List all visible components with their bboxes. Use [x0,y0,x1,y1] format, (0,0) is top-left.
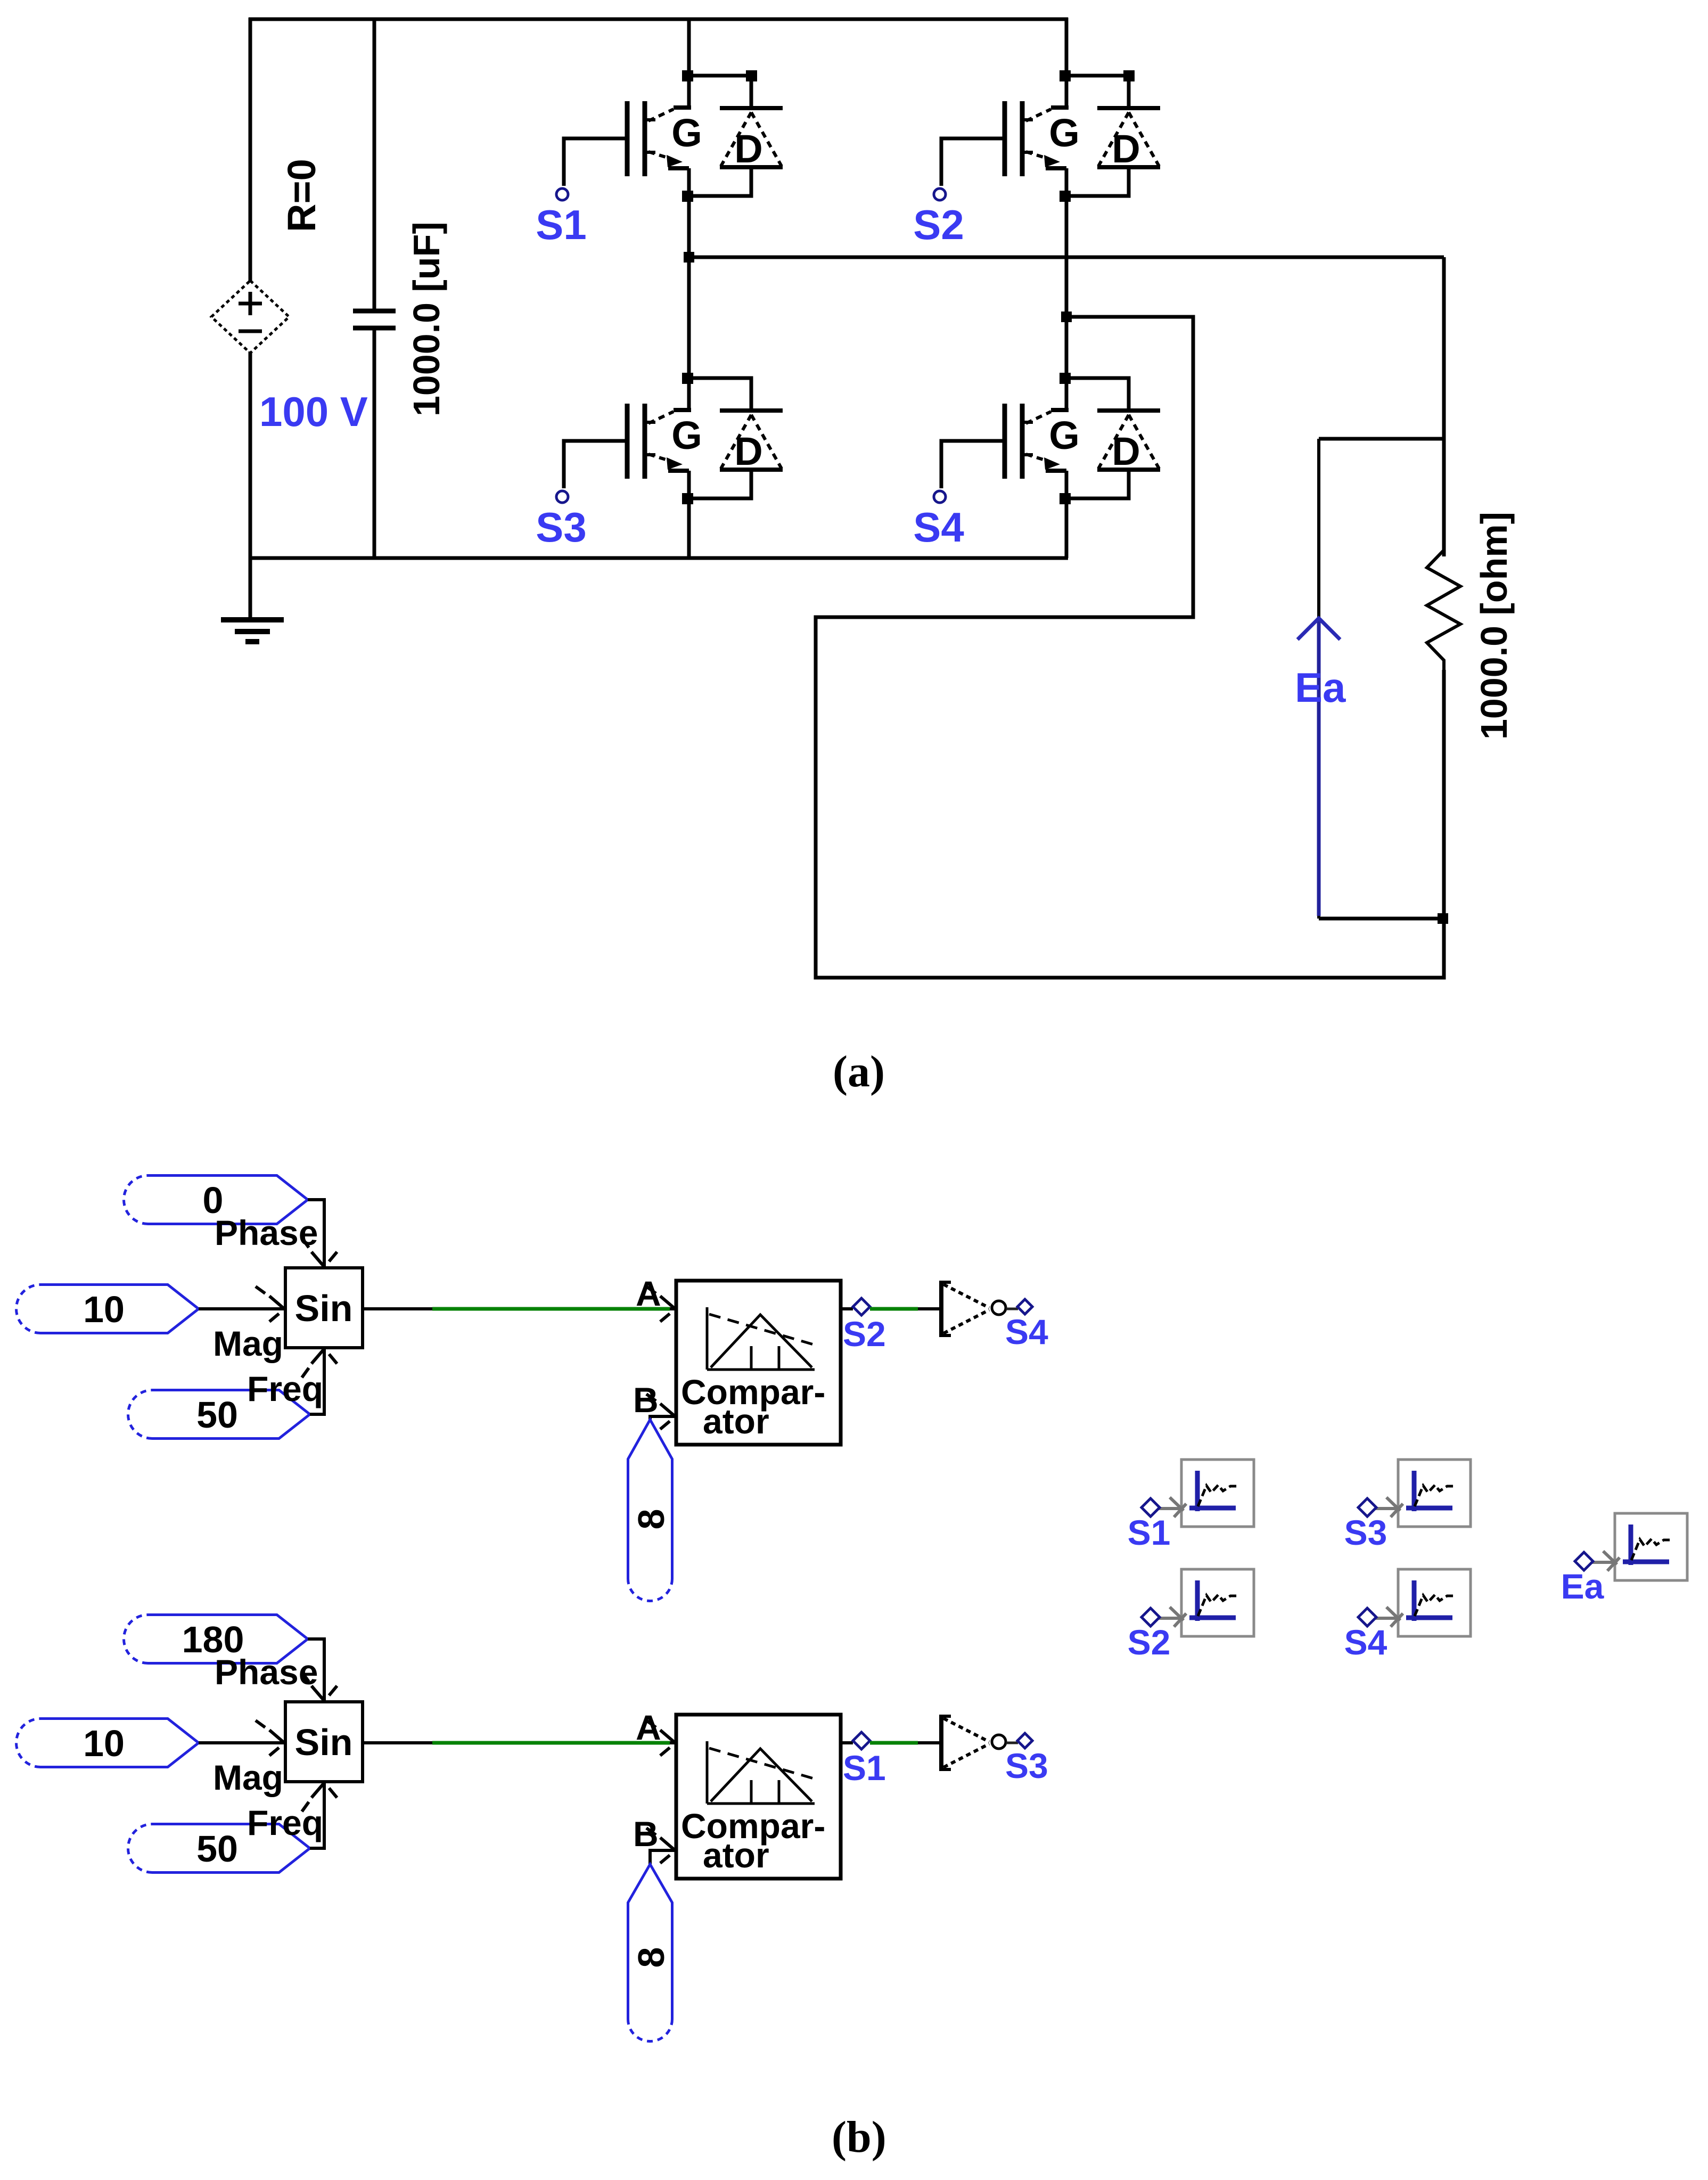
scope arrow Each [1591,1551,1620,1571]
scope output channel Each [1615,1513,1687,1580]
terminal circle S2 [934,189,946,200]
svg-text:1000.0 [ohm]: 1000.0 [ohm] [1473,512,1515,740]
terminal circle S4 [934,491,946,503]
svg-text:G: G [1049,413,1080,457]
wire green to inverter [870,1307,918,1311]
ground [221,620,284,642]
svg-text:Ea: Ea [1295,664,1346,711]
svg-text:G: G [671,111,702,155]
svg-text:10: 10 [83,1723,125,1764]
svg-text:D: D [734,429,762,473]
wire Ea bottom connection [1319,917,1444,921]
node bottom of Q4 [1060,493,1071,504]
svg-text:Sin: Sin [295,1722,353,1763]
block Sin lower [285,1702,363,1782]
svg-text:10: 10 [83,1289,125,1330]
svg-text:50: 50 [196,1394,238,1436]
diamond node Each [1575,1552,1593,1570]
arrow into Sin bottom [302,1349,337,1378]
svg-text:A: A [636,1708,661,1747]
svg-text:R=0: R=0 [280,159,324,232]
svg-text:Freq: Freq [247,1369,323,1408]
inverter NOT gate [941,1715,1018,1771]
data label pill Freq lower [128,1824,310,1873]
svg-text:D: D [734,127,762,171]
svg-text:S1: S1 [843,1748,886,1788]
wire source branch upper [249,18,252,282]
arrow into Sin left [256,1720,284,1756]
diamond node S3 [1017,1733,1032,1748]
arrow into Sin bottom [302,1783,337,1812]
node bottom of Q1 [682,191,693,202]
node Ea to resistor leg [1438,913,1448,924]
svg-text:S2: S2 [843,1314,886,1354]
svg-text:1000.0 [uF]: 1000.0 [uF] [406,222,447,416]
wire top rail [249,18,1068,21]
svg-text:G: G [1049,111,1080,155]
svg-text:S1: S1 [1128,1513,1171,1552]
diamond node S3ch [1358,1498,1376,1517]
diode D of Q3 [689,378,783,498]
wire midpoint left to load [689,256,1444,259]
svg-text:D: D [1112,429,1140,473]
node bottom of Q2 [1060,191,1071,202]
svg-text:Freq: Freq [247,1803,323,1842]
scope arrow S2ch [1157,1607,1186,1627]
scope arrow S3ch [1374,1497,1403,1517]
svg-text:S3: S3 [1344,1513,1387,1552]
constant pill lower (value 8) [628,1864,672,2041]
transistor Q4 (IGBT) [1005,404,1069,479]
terminal circle S1 [556,189,568,200]
gate lead of Q2 [941,138,1005,186]
svg-text:Ea: Ea [1561,1567,1605,1606]
wire freq to Sin [310,1782,324,1848]
wire comparator output [841,1307,853,1310]
terminal circle S3 [556,491,568,503]
scope arrow S1ch [1157,1497,1186,1517]
wire load top [1442,257,1446,556]
wire mag to Sin [199,1741,285,1744]
svg-text:A: A [636,1274,661,1313]
scope output channel S3ch [1398,1460,1471,1527]
svg-text:8: 8 [630,1509,672,1530]
svg-text:Sin: Sin [295,1288,353,1329]
block Comparator upper [676,1281,841,1445]
data label pill Mag upper [17,1285,199,1333]
capacitor C1 [353,18,396,558]
node top of Q2 [1060,70,1071,81]
svg-text:S1: S1 [536,201,586,248]
diode D of Q1 [689,76,783,196]
voltmeter Ea arrow [1298,618,1340,916]
node top of Q4 [1060,373,1071,384]
gate lead of Q3 [564,441,627,488]
node diode corner of Q2 [1123,70,1135,81]
wire source branch lower [249,351,252,622]
diamond node S4 [1017,1299,1032,1314]
block Sin upper [285,1268,363,1348]
svg-text:8: 8 [630,1947,672,1968]
svg-text:S4: S4 [913,504,964,551]
gate lead of Q4 [941,441,1005,488]
arrow into A [646,1286,675,1322]
wire right leg trunk [1065,18,1069,558]
transistor Q3 (IGBT) [627,404,691,479]
node top of Q3 [682,373,693,384]
gate lead of Q1 [564,138,627,186]
svg-text:S3: S3 [536,504,586,551]
arrow into A [646,1720,675,1756]
diamond node S2ch [1142,1608,1160,1626]
svg-text:G: G [671,413,702,457]
transistor Q1 (IGBT) [627,101,691,176]
svg-text:S4: S4 [1344,1622,1387,1662]
wire pill to B [650,1416,675,1421]
diamond node S1ch [1142,1498,1160,1517]
wire midpoint right branch [816,317,1444,978]
wire green to comparator A [432,1307,670,1311]
data label pill Mag lower [17,1719,199,1767]
wire pill to B [650,1850,675,1865]
diamond node S2 [853,1298,870,1315]
scope output channel S1ch [1181,1460,1254,1527]
node midpoint left leg [684,252,694,263]
arrow into B [646,1828,675,1863]
source V1 100V diamond [211,281,289,353]
wire phase to Sin [308,1639,324,1702]
svg-text:S3: S3 [1005,1746,1048,1785]
wire green to inverter [870,1741,918,1745]
svg-text:Phase: Phase [215,1213,318,1252]
data label pill Phase upper [124,1176,308,1224]
svg-text:ator: ator [703,1835,769,1875]
diode D of Q2 [1066,76,1160,196]
wire green to comparator A [432,1741,670,1745]
node bottom of Q3 [682,493,693,504]
svg-text:100 V: 100 V [259,388,368,435]
constant pill upper (value 8) [628,1420,672,1601]
svg-text:Mag: Mag [213,1758,283,1797]
svg-text:S2: S2 [1128,1622,1171,1662]
data label pill Phase lower [124,1615,308,1663]
wire bottom rail [249,556,1068,560]
svg-text:S4: S4 [1005,1312,1048,1351]
svg-text:(b): (b) [832,2112,886,2162]
wire Sin output [363,1307,432,1310]
wire Ea vertical [1317,439,1320,919]
inverter NOT gate [941,1281,1018,1337]
resistor R load 1000 ohm [1427,550,1460,670]
wire comparator output [841,1741,853,1744]
scope output channel S4ch [1398,1569,1471,1636]
scope arrow S4ch [1374,1607,1403,1627]
node diode corner of Q1 [746,70,757,81]
scope output channel S2ch [1181,1569,1254,1636]
svg-text:D: D [1112,127,1140,171]
wire freq to Sin [310,1348,324,1414]
wire mag to Sin [199,1307,285,1310]
node midpoint right leg [1061,312,1072,322]
svg-text:ator: ator [703,1402,769,1441]
node top of Q1 [682,70,693,81]
diamond node S1 [853,1732,870,1749]
transistor Q2 (IGBT) [1005,101,1069,176]
svg-text:(a): (a) [833,1047,885,1096]
arrow into B [646,1394,675,1429]
svg-text:S2: S2 [913,201,964,248]
diamond node S4ch [1358,1608,1376,1626]
arrow into Sin top [302,1238,337,1267]
wire Sin output [363,1741,432,1744]
wire phase to Sin [308,1200,324,1268]
svg-text:50: 50 [196,1828,238,1870]
arrow into Sin top [302,1672,337,1701]
svg-text:Mag: Mag [213,1324,283,1363]
wire left leg trunk [687,18,691,558]
diode D of Q4 [1066,378,1160,498]
wire Ea top connection [1319,437,1444,441]
block Comparator lower [676,1715,841,1879]
data label pill Freq upper [128,1390,310,1439]
arrow into Sin left [256,1286,284,1322]
